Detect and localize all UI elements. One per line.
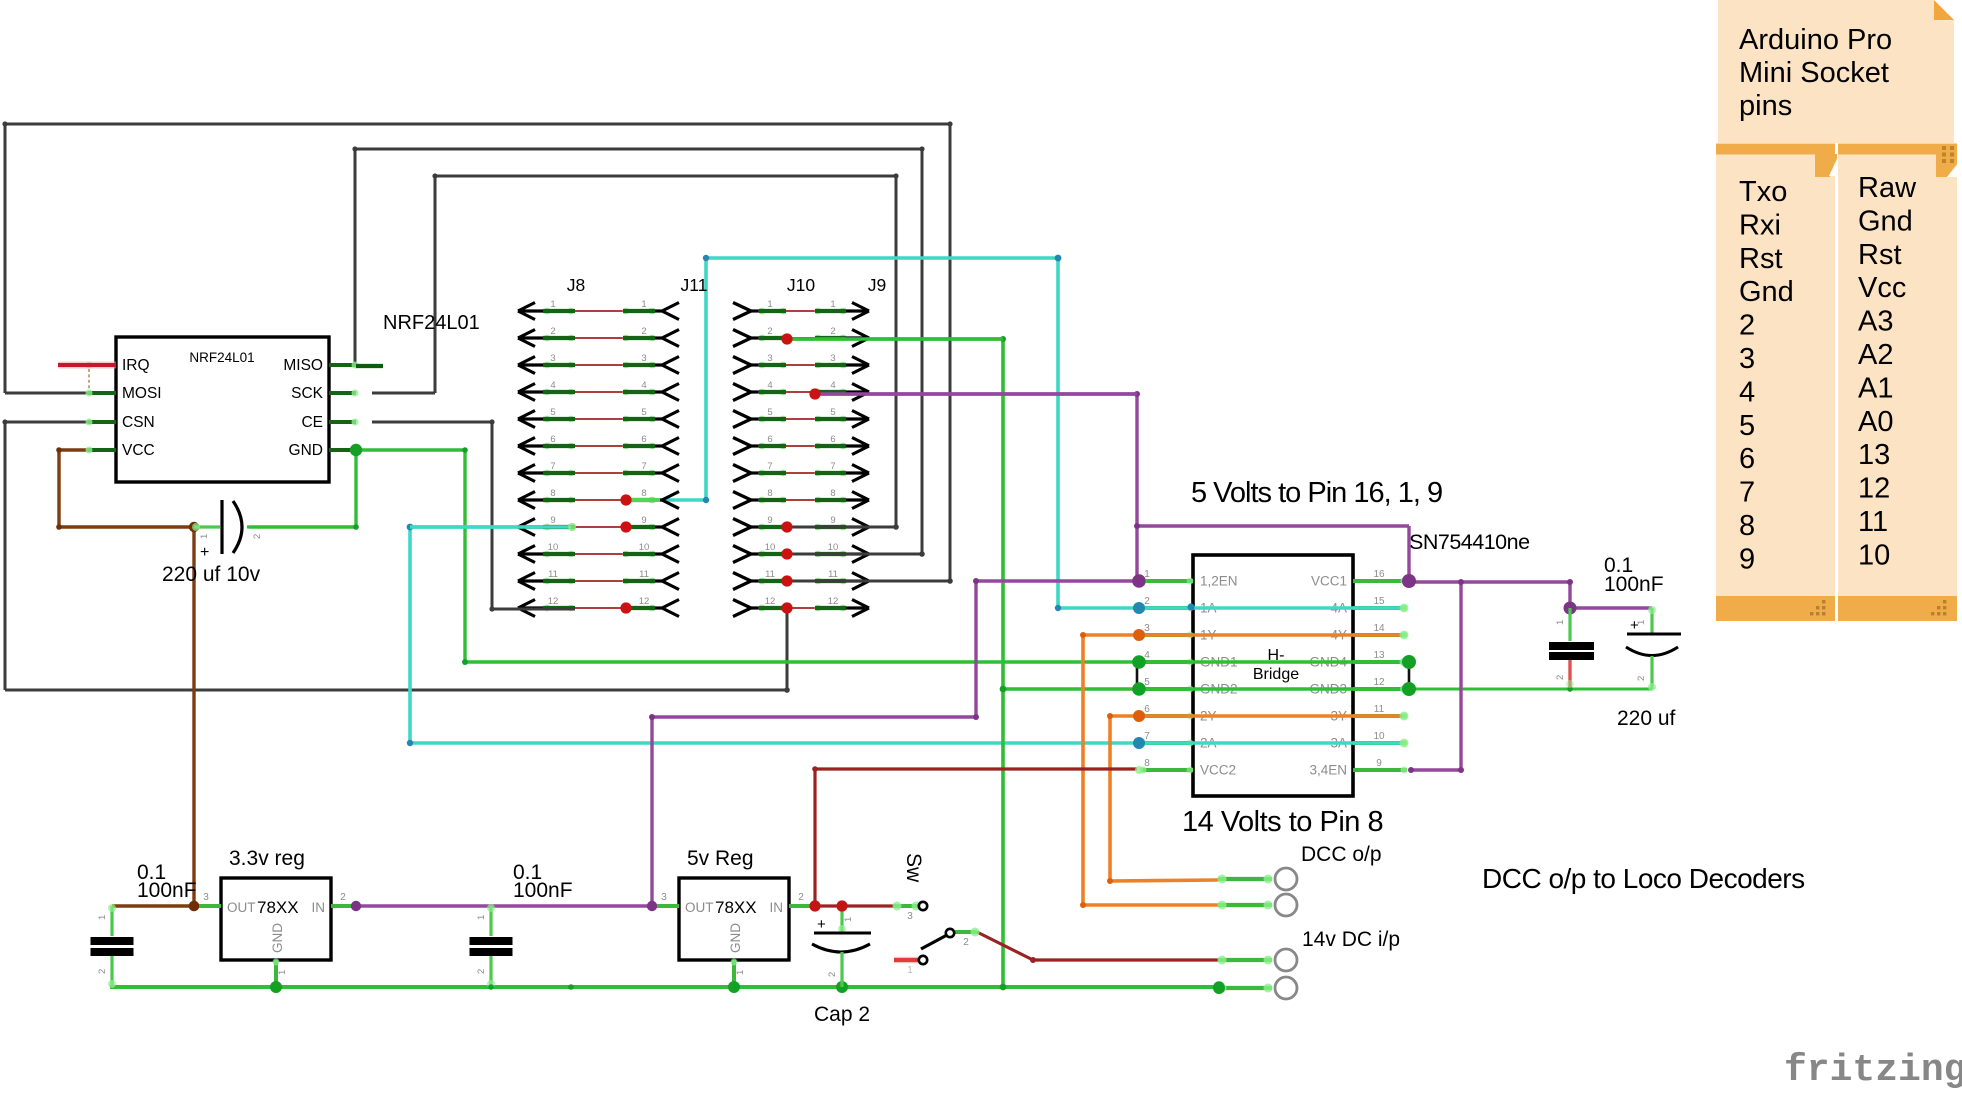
svg-text:A0: A0: [1858, 406, 1893, 438]
svg-text:10: 10: [1373, 731, 1385, 742]
wire green NRF GND to 220uf cap and GND1: [249, 447, 1409, 666]
svg-text:100nF: 100nF: [513, 879, 573, 902]
svg-text:MOSI: MOSI: [122, 385, 162, 402]
svg-text:2: 2: [827, 972, 838, 977]
svg-text:5: 5: [767, 407, 772, 418]
svg-text:Bridge: Bridge: [1253, 666, 1299, 683]
wire 14v DC input: switch pin2 to input connector: [977, 932, 1218, 963]
wire orange 1Y to DCC output 2: [1080, 631, 1409, 909]
svg-text:Raw: Raw: [1858, 172, 1917, 204]
svg-text:pins: pins: [1739, 90, 1792, 122]
connector 14v DC input pin 2: [1218, 977, 1298, 999]
svg-text:11: 11: [765, 569, 775, 580]
svg-text:3: 3: [550, 353, 555, 364]
svg-text:IN: IN: [770, 900, 784, 915]
wire dark green MISO stub wire: [356, 364, 383, 368]
svg-text:4: 4: [767, 380, 772, 391]
connector DCC output pin 2: [1218, 894, 1298, 916]
svg-text:1: 1: [907, 965, 913, 976]
note: right pin column (Raw..10): [1838, 144, 1957, 622]
svg-text:8: 8: [641, 488, 646, 499]
svg-text:78XX: 78XX: [715, 898, 757, 917]
svg-text:Arduino Pro: Arduino Pro: [1739, 24, 1892, 56]
svg-text:6: 6: [550, 434, 555, 445]
wire J10 pin 11 to MOSI rail: [787, 580, 950, 583]
svg-text:J8: J8: [567, 275, 585, 295]
svg-text:Rst: Rst: [1739, 243, 1783, 275]
svg-text:+: +: [200, 544, 209, 561]
wire J10 pin 10 to MISO rail: [787, 553, 922, 556]
svg-text:6: 6: [1144, 704, 1150, 715]
svg-text:12: 12: [1373, 677, 1385, 688]
wire red stub on NRF IRQ: [58, 362, 116, 369]
wire SCK net: NRF SCK to top rail to J10 pin 9: [372, 173, 899, 529]
svg-text:5 Volts to Pin 16, 1, 9: 5 Volts to Pin 16, 1, 9: [1191, 477, 1442, 509]
svg-text:Rst: Rst: [1858, 239, 1902, 271]
connector 14v DC input pin 1: [1218, 949, 1298, 971]
svg-text:9: 9: [767, 515, 772, 526]
svg-text:1: 1: [1636, 620, 1647, 625]
svg-text:IN: IN: [312, 900, 326, 915]
svg-text:OUT: OUT: [227, 900, 256, 915]
svg-text:14v DC i/p: 14v DC i/p: [1302, 928, 1400, 951]
capacitor 0.1 100nF at 5v reg output: [470, 904, 513, 988]
junction red dots on J10 pins 2 4 9 10 11 12: [781, 333, 820, 613]
capacitor 0.1 100nF at 3.3v reg output: [91, 904, 134, 988]
svg-text:IRQ: IRQ: [122, 357, 150, 374]
svg-text:7: 7: [641, 461, 646, 472]
svg-text:A2: A2: [1858, 339, 1893, 371]
IC 5v regulator 78XX: [651, 847, 817, 987]
junction dots SN754410 right pins: [1402, 574, 1416, 696]
svg-text:78XX: 78XX: [257, 898, 299, 917]
svg-text:13: 13: [1373, 650, 1385, 661]
svg-text:1: 1: [843, 917, 854, 922]
wire gray overlay J10 pin10: [787, 553, 922, 556]
svg-text:8: 8: [1144, 758, 1150, 769]
svg-text:8: 8: [767, 488, 772, 499]
svg-text:14 Volts to Pin 8: 14 Volts to Pin 8: [1182, 806, 1383, 838]
svg-text:10: 10: [548, 542, 559, 553]
svg-text:8: 8: [1739, 510, 1755, 542]
IC SN754410ne H-Bridge: [1140, 555, 1408, 796]
wire green J10 pin 2 to GND2/GND3 and ground rail: [787, 336, 1652, 990]
svg-text:3.3v reg: 3.3v reg: [229, 847, 305, 870]
svg-text:10: 10: [765, 542, 776, 553]
wire green overlay J10 pin2: [787, 337, 1003, 341]
svg-text:2: 2: [641, 326, 646, 337]
svg-text:8: 8: [550, 488, 555, 499]
svg-text:3: 3: [1739, 343, 1755, 375]
svg-text:6: 6: [767, 434, 772, 445]
svg-text:3,4EN: 3,4EN: [1309, 763, 1347, 778]
note: Arduino Pro Mini Socket pins title: [1718, 0, 1954, 143]
junction red dots on J8/J11 pins 8 9 12: [620, 494, 631, 613]
svg-text:OUT: OUT: [685, 900, 714, 915]
svg-text:6: 6: [1739, 443, 1755, 475]
svg-text:2: 2: [1739, 310, 1755, 342]
svg-text:NRF24L01: NRF24L01: [383, 312, 480, 334]
svg-text:12: 12: [828, 596, 839, 607]
svg-text:2: 2: [1636, 676, 1647, 681]
IC 3.3v regulator 78XX: [193, 847, 359, 987]
svg-text:DCC o/p: DCC o/p: [1301, 843, 1382, 866]
svg-text:9: 9: [550, 515, 555, 526]
svg-text:Txo: Txo: [1739, 176, 1787, 208]
junction dots SN754410 left pins: [1132, 574, 1194, 749]
svg-text:3: 3: [1144, 623, 1150, 634]
svg-text:9: 9: [830, 515, 835, 526]
svg-text:12: 12: [639, 596, 650, 607]
capacitor Cap 2 electrolytic at 5v reg input: [812, 906, 871, 987]
wire 14V net: 5v reg IN - cap2 - switch pin3 - SN754410 VCC2: [812, 766, 1143, 906]
svg-text:2: 2: [476, 969, 487, 974]
svg-text:2: 2: [963, 937, 969, 948]
svg-text:1: 1: [550, 299, 555, 310]
svg-text:Cap 2: Cap 2: [814, 1003, 870, 1026]
svg-text:A3: A3: [1858, 306, 1893, 338]
svg-text:fritzing: fritzing: [1784, 1049, 1962, 1092]
wire CE net: NRF CE to J8 pin 12: [372, 419, 575, 611]
capacitor 0.1 100nF right ceramic: [1549, 608, 1594, 688]
wire tie GND1-GND2: [1136, 662, 1139, 689]
svg-text:1: 1: [767, 299, 772, 310]
wire purple overlay J10 pin4: [815, 392, 1137, 395]
svg-text:Vcc: Vcc: [1858, 272, 1906, 304]
svg-text:11: 11: [1858, 506, 1888, 538]
svg-text:3: 3: [641, 353, 646, 364]
svg-text:1: 1: [830, 299, 835, 310]
IC NRF24L01 module: [86, 337, 359, 482]
junction ground rail dots: [270, 981, 1225, 993]
wire CSN net: NRF CSN to J10 pin 12: [2, 419, 789, 692]
wire cyan overlay J8 pin9: [410, 523, 576, 531]
svg-text:2: 2: [798, 892, 804, 903]
svg-text:7: 7: [1144, 731, 1150, 742]
junction 5v reg IN red dot: [809, 900, 820, 911]
svg-text:11: 11: [828, 569, 838, 580]
svg-text:SN754410ne: SN754410ne: [1409, 530, 1530, 554]
svg-text:7: 7: [830, 461, 835, 472]
svg-text:Gnd: Gnd: [1739, 276, 1794, 308]
ratsnest dashed IRQ-MOSI: [88, 369, 90, 389]
switch Sw SPDT: [893, 902, 980, 977]
svg-text:12: 12: [548, 596, 559, 607]
wire gray overlay CE to J8 pin12: [492, 608, 575, 611]
svg-text:3: 3: [907, 911, 913, 922]
svg-text:1,2EN: 1,2EN: [1200, 574, 1238, 589]
svg-text:5: 5: [830, 407, 835, 418]
junction ground at DC input: [1213, 982, 1225, 994]
svg-text:+: +: [817, 916, 826, 933]
svg-text:5: 5: [550, 407, 555, 418]
svg-text:MISO: MISO: [283, 357, 323, 374]
svg-text:6: 6: [830, 434, 835, 445]
junction cap2 top red dot: [836, 900, 847, 911]
wire gray overlay J10 pin9: [787, 526, 896, 529]
connector J8 / J11 pin headers 12x1: [518, 275, 707, 617]
junction 5v reg OUT purple dot: [647, 901, 657, 911]
svg-text:2: 2: [340, 892, 346, 903]
svg-text:3: 3: [830, 353, 835, 364]
svg-text:100nF: 100nF: [137, 879, 197, 902]
svg-text:4: 4: [830, 380, 835, 391]
label 0.1 100nF right: [1604, 554, 1664, 596]
svg-text:4: 4: [550, 380, 555, 391]
svg-text:2: 2: [767, 326, 772, 337]
svg-text:9: 9: [1739, 543, 1755, 575]
svg-text:1: 1: [277, 970, 288, 975]
svg-text:14: 14: [1373, 623, 1385, 634]
svg-text:5v Reg: 5v Reg: [687, 847, 754, 870]
svg-text:220 uf 10v: 220 uf 10v: [162, 563, 261, 586]
junction 3.3v reg IN purple dot: [351, 901, 361, 911]
svg-text:13: 13: [1858, 439, 1890, 471]
svg-text:A1: A1: [1858, 372, 1893, 404]
svg-text:5: 5: [1739, 410, 1755, 442]
svg-text:10: 10: [828, 542, 839, 553]
svg-text:4: 4: [641, 380, 646, 391]
svg-text:Mini Socket: Mini Socket: [1739, 57, 1889, 89]
svg-text:5: 5: [641, 407, 646, 418]
junction NRF GND: [350, 444, 362, 456]
svg-text:1: 1: [97, 915, 108, 920]
svg-text:2: 2: [830, 326, 835, 337]
svg-text:9: 9: [641, 515, 646, 526]
svg-text:10: 10: [1858, 539, 1890, 571]
svg-text:NRF24L01: NRF24L01: [189, 350, 254, 365]
svg-text:7: 7: [550, 461, 555, 472]
svg-text:220 uf: 220 uf: [1617, 707, 1676, 730]
wire cyan J8 pin 9 to SN754410 2A/3A: [407, 523, 1409, 748]
svg-text:SCK: SCK: [291, 385, 324, 402]
connector DCC output pin 1: [1218, 868, 1298, 890]
svg-text:GND: GND: [289, 442, 323, 459]
svg-text:3: 3: [767, 353, 772, 364]
svg-text:J11: J11: [681, 275, 708, 295]
note: left pin column (Txo..9): [1716, 144, 1837, 622]
junction 3.3v reg OUT brown dot: [189, 901, 200, 912]
wire gray overlay J10 pin11: [787, 580, 950, 583]
svg-text:2: 2: [252, 534, 263, 539]
svg-text:2: 2: [1144, 596, 1150, 607]
svg-text:2: 2: [1555, 675, 1566, 680]
wire brown NRF VCC to 3.3v reg OUT and 220uf cap: [56, 447, 199, 906]
svg-text:GND: GND: [728, 923, 743, 953]
wire MOSI net: top rail to J9 pin 11 and NRF MOSI: [2, 121, 952, 583]
svg-text:1: 1: [641, 299, 646, 310]
svg-text:2: 2: [97, 969, 108, 974]
svg-text:Sw: Sw: [902, 853, 925, 883]
svg-text:2: 2: [550, 326, 555, 337]
svg-text:GND: GND: [270, 923, 285, 953]
svg-text:1: 1: [476, 915, 487, 920]
capacitor 220 uf electrolytic right: [1626, 606, 1681, 691]
svg-text:VCC: VCC: [122, 442, 155, 459]
svg-text:7: 7: [767, 461, 772, 472]
wire cyan J8 pin 8 to SN754410 1A/4A: [626, 255, 1409, 613]
svg-text:J9: J9: [868, 275, 886, 295]
svg-text:Gnd: Gnd: [1858, 205, 1913, 237]
wire ground rail bottom: [110, 985, 1219, 989]
wire tie GND4-GND3: [1408, 662, 1411, 689]
svg-text:10: 10: [639, 542, 650, 553]
svg-text:100nF: 100nF: [1604, 573, 1664, 596]
svg-text:CE: CE: [301, 414, 323, 431]
svg-text:DCC o/p to Loco Decoders: DCC o/p to Loco Decoders: [1482, 863, 1805, 894]
svg-text:15: 15: [1373, 596, 1385, 607]
svg-text:12: 12: [1858, 473, 1890, 505]
svg-text:3: 3: [203, 892, 209, 903]
svg-text:VCC2: VCC2: [1200, 763, 1236, 778]
svg-text:16: 16: [1373, 569, 1385, 580]
svg-text:8: 8: [830, 488, 835, 499]
svg-text:11: 11: [548, 569, 558, 580]
svg-text:1: 1: [199, 534, 210, 539]
svg-text:1: 1: [735, 970, 746, 975]
svg-text:11: 11: [1374, 704, 1385, 715]
svg-text:11: 11: [639, 569, 649, 580]
svg-text:9: 9: [1376, 758, 1382, 769]
wire glow J11 pin8 connected: [629, 498, 660, 502]
svg-text:6: 6: [641, 434, 646, 445]
svg-text:4: 4: [1739, 376, 1755, 408]
wire purple 5V net: regulator OUT to SN754410 pins 16 1 9 and caps: [356, 391, 1652, 906]
svg-text:CSN: CSN: [122, 414, 155, 431]
svg-text:VCC1: VCC1: [1311, 574, 1347, 589]
capacitor 220 uf 10v electrolytic: [192, 500, 263, 561]
wire MISO net: NRF MISO to top rail to J9 pin 10: [352, 146, 924, 556]
svg-text:Rxi: Rxi: [1739, 209, 1781, 241]
svg-text:J10: J10: [787, 275, 815, 295]
svg-text:12: 12: [765, 596, 776, 607]
connector J10 / J9 pin headers 12x1: [733, 275, 886, 617]
svg-text:1: 1: [1555, 620, 1566, 625]
svg-text:7: 7: [1739, 477, 1755, 509]
svg-text:3: 3: [661, 892, 667, 903]
wire orange 2Y to DCC output 1: [1107, 712, 1409, 885]
